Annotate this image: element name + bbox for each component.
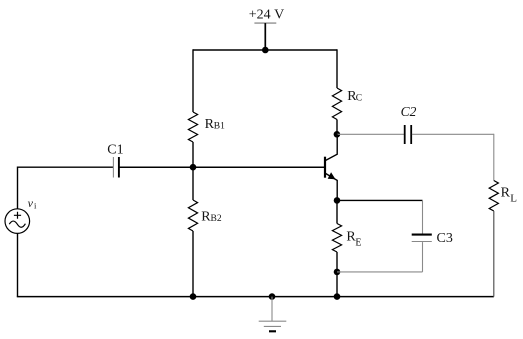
- capacitor C3 top plate: [412, 234, 432, 236]
- node: emitter junction dot: [334, 197, 341, 204]
- node: RE C3 bottom junction dot: [334, 269, 341, 276]
- capacitor C2 right plate: [410, 125, 412, 144]
- wire: base node to RB2: [192, 167, 194, 200]
- capacitor C1 left plate: [112, 157, 114, 178]
- source vi sine wave: [9, 221, 25, 227]
- svg-text:L: L: [510, 193, 517, 205]
- wire: C2 to right rail (gray): [412, 133, 494, 135]
- svg-text:C: C: [356, 94, 362, 104]
- wire: left rail source top: [17, 167, 19, 209]
- transistor Q1 base bar: [324, 157, 326, 178]
- svg-text:R: R: [501, 186, 511, 201]
- wire: base rail left of C1: [18, 166, 114, 168]
- node: top rail junction dot: [262, 47, 269, 54]
- node: collector junction dot: [334, 131, 341, 138]
- node: RB2 bottom rail dot: [190, 293, 197, 300]
- wire: RC to collector node: [336, 120, 338, 135]
- wire: emitter node to C3 branch top: [337, 199, 423, 201]
- svg-text:C3: C3: [437, 231, 453, 246]
- capacitor C3 bottom plate: [412, 241, 432, 243]
- wire: C3 branch bottom vertical (gray): [422, 242, 424, 272]
- source vi circle: [5, 209, 30, 234]
- wire: left rail source bottom: [17, 233, 19, 296]
- ground stem: [271, 297, 273, 322]
- resistor RL: [489, 181, 498, 212]
- resistor RB2: [188, 200, 197, 231]
- svg-text:C2: C2: [401, 104, 417, 119]
- node: ground junction dot: [269, 293, 276, 300]
- svg-text:E: E: [355, 238, 361, 249]
- wire: bottom ground rail: [17, 296, 494, 298]
- power symbol stem: [264, 23, 266, 50]
- svg-text:B2: B2: [211, 214, 222, 224]
- wire: top rail to RB1: [192, 49, 194, 112]
- wire: collector node to C2 (gray): [337, 133, 404, 135]
- wire: top rail to RC: [336, 49, 338, 88]
- transistor Q1 emitter wire: [326, 174, 338, 201]
- ground bar 3: [269, 330, 276, 332]
- svg-text:B1: B1: [214, 121, 225, 131]
- wire: RB2 to bottom rail: [192, 231, 194, 297]
- wire: base rail C1 to transistor base: [120, 166, 325, 168]
- node: base junction dot: [190, 164, 197, 171]
- wire: RL to bottom rail: [493, 211, 495, 297]
- source vi plus sign: [14, 212, 21, 219]
- transistor Q1 collector wire: [326, 134, 338, 160]
- power symbol bar: [254, 22, 276, 24]
- wire: top supply rail: [193, 49, 337, 51]
- node: emitter branch bottom rail dot: [334, 293, 341, 300]
- wire: RB1 to base node: [192, 142, 194, 167]
- svg-text:i: i: [34, 201, 37, 211]
- svg-text:+24 V: +24 V: [249, 8, 285, 23]
- wire: right rail top to RL (gray): [493, 134, 495, 181]
- wire: C3 branch bottom horizontal (gray): [337, 271, 423, 273]
- ground bar 2: [264, 325, 281, 327]
- svg-text:C1: C1: [107, 142, 123, 157]
- wire: emitter node to RE: [336, 200, 338, 223]
- svg-text:v: v: [28, 196, 34, 210]
- wire: C3 branch top vertical (gray): [422, 200, 424, 233]
- capacitor C2 left plate: [404, 125, 406, 144]
- wire: RE to bottom rail: [336, 252, 338, 297]
- transistor Q1 emitter arrow: [328, 173, 335, 179]
- resistor RB1: [188, 112, 197, 142]
- capacitor C1 right plate: [118, 157, 120, 178]
- ground bar 1: [259, 320, 287, 322]
- resistor RE: [332, 224, 341, 253]
- resistor RC: [332, 88, 341, 120]
